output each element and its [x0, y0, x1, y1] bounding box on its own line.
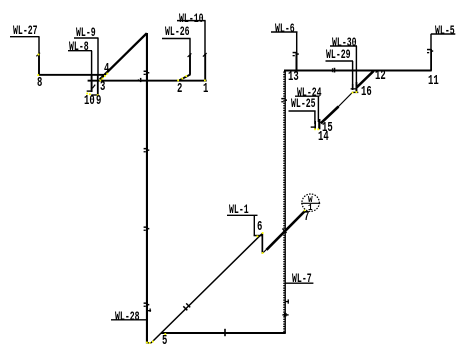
node 5 text: [162, 335, 167, 348]
wire node 2 drop: [178, 39, 191, 81]
wire WL-9 drop: [91, 38, 98, 96]
label WL-27 underline: [10, 36, 40, 38]
wire diagonal 1: [151, 234, 262, 344]
wire WL-8 drop: [87, 51, 96, 92]
label WL-26 text: [165, 25, 190, 38]
wire node 1 drop: [203, 21, 207, 81]
bottom bus tick: [224, 329, 226, 336]
label WL-10 text: [179, 12, 204, 25]
node 14 text: [318, 131, 329, 145]
wire WL-30 drop: [352, 46, 358, 93]
wire diagonal 2 thin: [262, 242, 274, 254]
wire bottom bus: [161, 332, 286, 334]
label WL-25 underline: [289, 110, 316, 112]
wire riser bottom elbow: [146, 342, 151, 344]
wire diagonal A: [100, 33, 147, 79]
label WL-6 text: [275, 22, 295, 35]
label WL-8 text: [69, 40, 89, 53]
label WL-27 text: [13, 24, 38, 37]
riser right tick: [148, 309, 151, 312]
node 10 text: [84, 95, 95, 109]
meter W1 circle: [301, 194, 320, 211]
label WL-25 text: [291, 97, 316, 110]
wire top-right bus: [284, 70, 432, 72]
label WL-9 underline: [74, 37, 99, 39]
node 4 text: [104, 63, 109, 77]
label WL-28 underline: [111, 319, 148, 321]
label WL-5 underline: [431, 33, 456, 35]
node 15 text: [322, 122, 333, 136]
node 3 text: [100, 81, 105, 95]
wire node 8 drop: [36, 37, 40, 76]
node 1 text: [203, 83, 208, 97]
wire node 12 jog: [357, 71, 374, 88]
wire WL-29 drop: [351, 61, 356, 90]
wire diagonal 16-15 thin: [338, 92, 353, 108]
label WL-6 underline: [271, 31, 298, 33]
yellow junction dots: [37, 54, 357, 344]
wire node 11 drop: [427, 34, 433, 71]
wire diagonal 16-15 thick: [321, 107, 339, 124]
label WL-28 text: [115, 310, 140, 323]
label WL-30 underline: [330, 45, 357, 47]
label WL-1 underline: [227, 214, 258, 216]
riser s-tick 3: [144, 226, 150, 231]
wire WL-25 drop: [311, 111, 316, 129]
wire right bus: [88, 80, 207, 82]
wire serrated vertical dotted: [283, 72, 285, 334]
bus tick right: [332, 68, 335, 73]
label WL-8 underline: [68, 50, 92, 52]
label WL-7 text: [292, 272, 312, 285]
wire diagonal 2 thick: [267, 211, 305, 250]
label WL-10 underline: [177, 20, 206, 22]
label WL-24 text: [297, 86, 322, 99]
serrated tick 315: [282, 313, 288, 316]
label WL-7 underline: [285, 282, 313, 284]
label WL-29 underline: [326, 60, 354, 62]
wire WL-1 drop: [254, 215, 262, 236]
node 12 text: [375, 70, 386, 84]
riser s-tick 2: [144, 148, 150, 153]
wire serrated vertical solid: [284, 72, 286, 334]
label WL-24 underline: [295, 95, 320, 97]
diagonal 1 tick: [183, 303, 190, 310]
node 2 text: [177, 83, 182, 97]
bus tick left: [138, 78, 142, 82]
label WL-9 text: [76, 26, 96, 39]
wire left bus: [38, 74, 104, 76]
label WL-30 text: [332, 36, 357, 49]
serrated tick 301: [285, 299, 289, 303]
riser s-tick 1: [144, 71, 150, 76]
wire main riser: [146, 33, 148, 344]
riser s-tick 4: [144, 302, 150, 307]
meter W text: [308, 196, 313, 205]
node 9 text: [96, 95, 101, 109]
node 7 text: [304, 211, 309, 225]
wire node 6 jog vertical: [262, 233, 264, 253]
diagonal 2 tick: [282, 229, 286, 233]
label WL-5 text: [435, 24, 455, 37]
node 11 text: [428, 75, 439, 89]
node 6 text: [257, 221, 262, 235]
node 16 text: [361, 86, 372, 100]
meter 1 text: [308, 204, 313, 213]
label WL-26 underline: [162, 38, 191, 40]
serrated s-tick: [281, 98, 287, 103]
node 8 text: [37, 77, 42, 91]
wire WL-6 drop: [293, 32, 299, 71]
wire WL-24 drop: [318, 96, 320, 129]
label WL-1 text: [229, 203, 249, 216]
label WL-29 text: [326, 48, 351, 61]
node 13 text: [288, 71, 299, 85]
